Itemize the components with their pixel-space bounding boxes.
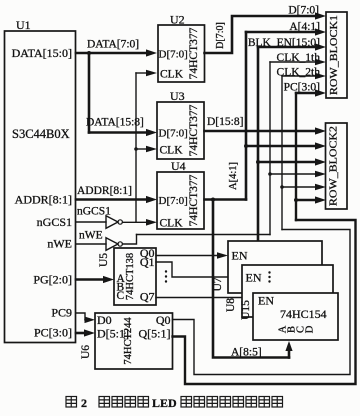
svg-text:U6: U6: [80, 345, 92, 359]
wire A[8:5] up into U15: [288, 346, 291, 358]
wire ADDR[8:1] bus from U1 to U4 D input: [76, 198, 147, 201]
arrow D[7:0] into ROW_BLOCK1: [315, 12, 326, 19]
junction CLK riser to U3 CLK: [134, 147, 138, 151]
arrow CLK_2th into ROW_BLOCK2: [315, 184, 326, 191]
wire CLK_1th into ROW_BLOCK1: [270, 61, 316, 63]
wire BLK_EN[15:0] into ROW_BLOCK1: [258, 46, 316, 49]
arrow into U15 EN: [242, 295, 253, 302]
arrow BLK_EN into ROW_BLOCK1: [315, 43, 326, 50]
wire BLK_EN into ROW_BLOCK2: [258, 161, 316, 164]
caption hanzi kou: [207, 397, 218, 408]
wire U4 output A bus to riser: [205, 198, 247, 201]
arrow D[15:8] into ROW_BLOCK2: [315, 127, 326, 134]
wire PC[3:0] riser: [295, 93, 297, 220]
inverter (nWE) triangle: [106, 238, 118, 251]
wire U5 Q0 to U7 EN: [156, 255, 218, 257]
svg-text:DATA[15:0]: DATA[15:0]: [12, 46, 72, 60]
svg-text:A[4:1]: A[4:1]: [228, 162, 239, 190]
svg-text:Q7: Q7: [140, 290, 155, 304]
block ROW_BLOCK2 box: [326, 123, 348, 209]
svg-text:U8: U8: [225, 298, 237, 312]
wire A[4:1] riser: [245, 32, 248, 200]
svg-text:Q1: Q1: [140, 255, 155, 269]
arrow CLK_1th into ROW_BLOCK2: [315, 171, 326, 178]
wire PG[2:0] bus from U1 to U5: [76, 278, 104, 281]
wire PC[3:0] into ROW_BLOCK1: [296, 92, 316, 94]
IC U2 74HCT377 latch box: [158, 25, 205, 82]
svg-text:nWE: nWE: [79, 230, 103, 242]
svg-text:A[8:5]: A[8:5]: [231, 347, 262, 359]
caption hanzi lu: [233, 397, 244, 408]
wire DATA[15:8] branch vertical: [88, 53, 91, 133]
svg-text:D: D: [305, 325, 316, 333]
block U8 enable-group box: [242, 265, 333, 317]
junction BLK_EN to ROW_BLOCK2: [256, 160, 260, 164]
ellipsis between U5 outputs: [165, 270, 167, 282]
wire nGCS1 from U1 to inverter: [76, 221, 106, 223]
svg-text:CLK: CLK: [160, 218, 184, 230]
svg-text:CLK_1th: CLK_1th: [277, 52, 321, 64]
svg-text:U4: U4: [171, 159, 186, 173]
wire nWE from U1 to inverter: [76, 243, 106, 245]
wire into U2 CLK: [136, 72, 147, 74]
junction A[8:5] branch on U4 output: [211, 198, 215, 202]
arrow into U2 CLK: [146, 70, 157, 77]
arrow PC[3:0] into ROW_BLOCK2: [315, 196, 326, 203]
inverter (nGCS1) bubble: [118, 220, 122, 224]
arrow into U3 CLK: [146, 146, 157, 153]
caption hanzi dian: [220, 397, 231, 408]
svg-text:74HCT244: 74HCT244: [123, 317, 134, 365]
arrow into U4 CLK: [146, 219, 157, 226]
svg-text:ADDR[8:1]: ADDR[8:1]: [77, 185, 132, 197]
svg-text:Q0: Q0: [156, 313, 171, 327]
caption hanzi ping: [181, 397, 192, 408]
svg-text:D[7:0]: D[7:0]: [159, 49, 188, 61]
ellipsis inside U8: [268, 271, 270, 282]
inverter (nWE) bubble: [118, 242, 122, 246]
svg-text:74HCT377: 74HCT377: [188, 27, 200, 79]
wire CLK_1th riser (from nWE inverter line): [269, 62, 271, 235]
svg-text:U7: U7: [212, 277, 224, 291]
arrow PC[3:0] into ROW_BLOCK1: [315, 89, 326, 96]
wire DATA[15:0] bus from U1 to U2 D input: [76, 52, 147, 55]
caption hanzi li: [259, 397, 270, 408]
svg-text:CLK: CLK: [160, 69, 184, 81]
junction A[4:1] to ROW_BLOCK2: [244, 144, 248, 148]
svg-text:PG[2:0]: PG[2:0]: [33, 273, 72, 287]
wire U2 output D[7:0] up to ROW_BLOCK1: [205, 16, 317, 53]
svg-text:EN: EN: [246, 271, 262, 285]
wire U5 Q1 step to U8 EN: [156, 262, 232, 277]
svg-text:DATA[7:0]: DATA[7:0]: [87, 39, 139, 51]
wire BLK_EN[15:0] riser from U7 top edge: [257, 47, 260, 241]
svg-text:D[7:0]: D[7:0]: [215, 22, 226, 49]
wire PC9 from U1 step down to U6 D0: [76, 313, 86, 320]
arrow into U6 D0: [85, 317, 96, 324]
arrow A[4:1] into ROW_BLOCK1: [315, 28, 326, 35]
svg-text:S3C44B0X: S3C44B0X: [12, 127, 70, 141]
wire U3 output D[15:8] to ROW_BLOCK2: [205, 130, 317, 133]
svg-text:U3: U3: [170, 89, 185, 103]
wire inverter output to U4 CLK: [122, 221, 147, 223]
svg-text:U1: U1: [16, 18, 31, 32]
svg-text:D[7:0]: D[7:0]: [159, 195, 188, 207]
arrow into U2 D[7:0]: [146, 49, 157, 56]
svg-text:D[7:0]: D[7:0]: [288, 5, 319, 17]
IC U5 74HCT138 decoder box: [114, 248, 156, 305]
wire PC[3:0] bus from U1 to U6: [76, 332, 85, 335]
block ROW_BLOCK1 box: [326, 12, 347, 98]
svg-text:BLK_EN[15:0]: BLK_EN[15:0]: [248, 37, 320, 49]
svg-text:ROW_BLOCK2: ROW_BLOCK2: [328, 126, 340, 206]
caption hanzi jie: [194, 397, 205, 408]
svg-text:D[7:0]: D[7:0]: [159, 128, 188, 140]
block U15 74HC154 decoder box: [253, 293, 338, 340]
arrow into U6 D[5:1]: [84, 329, 95, 336]
svg-text:Q[5:1]: Q[5:1]: [139, 327, 171, 341]
wire U6 Q[5:1] (PC[3:0]) long path right-down-right-up-left: [173, 220, 356, 384]
svg-text:D[5:1]: D[5:1]: [97, 327, 129, 341]
junction PC[3:0] to ROW_BLOCK2: [294, 198, 298, 202]
caption hanzi yuan: [246, 397, 257, 408]
svg-text:PC[3:0]: PC[3:0]: [34, 326, 72, 340]
wire CLK_2th into ROW_BLOCK1: [282, 75, 316, 77]
svg-text:EN: EN: [232, 249, 248, 263]
svg-text:nWE: nWE: [47, 237, 72, 251]
arrow BLK_EN into ROW_BLOCK2: [315, 158, 326, 165]
junction on DATA bus at branch to U3: [87, 51, 91, 55]
svg-text:LED: LED: [152, 396, 177, 410]
caption hanzi kong: [112, 397, 123, 408]
IC U3 74HCT377 latch box: [157, 102, 204, 159]
wire A[4:1] into ROW_BLOCK2: [246, 145, 316, 148]
junction CLK_2th to ROW_BLOCK2: [280, 185, 284, 189]
svg-text:C: C: [117, 290, 125, 302]
svg-text:74HC154: 74HC154: [280, 307, 327, 321]
wire A[4:1] into ROW_BLOCK1: [246, 31, 316, 34]
svg-text:74HCT377: 74HCT377: [188, 104, 200, 156]
IC U1 S3C44B0X main controller box: [5, 31, 76, 343]
arrow into U8 EN: [231, 274, 242, 281]
arrow into U3 D[7:0]: [146, 129, 157, 136]
wire into U3 CLK: [136, 148, 147, 150]
svg-text:CLK_2th: CLK_2th: [277, 67, 321, 79]
wire nWE inverter output step up: [122, 235, 136, 245]
arrow into U7 EN: [217, 252, 228, 259]
caption hanzi zhu: [99, 397, 110, 408]
caption hanzi tu2: [272, 397, 283, 408]
wire CLK_1th into ROW_BLOCK2: [270, 173, 316, 175]
svg-text:ROW_BLOCK1: ROW_BLOCK1: [328, 15, 340, 95]
arrow CLK_2th into ROW_BLOCK1: [315, 73, 326, 80]
svg-text:A[4:1]: A[4:1]: [289, 21, 320, 33]
block U7 enable-group box: [228, 241, 322, 293]
wire nWE inverted run to CLK_1th riser: [137, 234, 271, 236]
wire PC[3:0] into ROW_BLOCK2: [296, 199, 316, 201]
wire CLK riser to U2/U3 clocks: [135, 73, 137, 222]
wire CLK_2th into ROW_BLOCK2: [282, 186, 316, 188]
svg-text:D0: D0: [97, 313, 112, 327]
arrow into U5 select inputs: [103, 276, 114, 283]
caption hanzi tu: [66, 397, 77, 408]
IC U6 74HCT244 buffer box: [95, 313, 173, 369]
wire U6 Q0 (CLK_2th) long path right-down-right-up-left: [173, 230, 351, 375]
arrow A[8:5] up into U15 address inputs: [285, 341, 292, 351]
inverter (nGCS1) triangle: [106, 216, 118, 229]
svg-text:DATA[15:8]: DATA[15:8]: [86, 117, 144, 129]
svg-text:U5: U5: [98, 253, 110, 267]
svg-text:ADDR[8:1]: ADDR[8:1]: [15, 193, 72, 207]
svg-text:CLK: CLK: [160, 145, 184, 157]
figure caption: 图 2 主控板与 LED 屏接口电路原理图: [66, 397, 283, 408]
svg-text:U15: U15: [240, 300, 252, 320]
svg-text:PC[3:0]: PC[3:0]: [284, 82, 320, 94]
arrow CLK_1th into ROW_BLOCK1: [315, 59, 326, 66]
wire A[8:5] down from U4 output to decoder group: [213, 200, 289, 358]
svg-text:EN: EN: [258, 294, 274, 308]
svg-text:nGCS1: nGCS1: [37, 215, 72, 229]
caption hanzi yu: [138, 397, 149, 408]
arrow into U4 D[7:0]: [146, 196, 157, 203]
svg-text:74HCT377: 74HCT377: [188, 174, 200, 226]
IC U4 74HCT377 latch box: [157, 172, 204, 229]
svg-text:74HCT138: 74HCT138: [125, 253, 136, 300]
svg-text:D[15:8]: D[15:8]: [207, 116, 243, 128]
junction CLK_1th to ROW_BLOCK2: [268, 172, 272, 176]
arrow A[4:1] into ROW_BLOCK2: [315, 142, 326, 149]
svg-text:U2: U2: [170, 13, 185, 27]
svg-text:PC9: PC9: [51, 306, 72, 320]
wire CLK_2th riser: [281, 76, 283, 230]
wire U5 Q7 to U15 EN: [156, 297, 243, 299]
svg-text:2: 2: [81, 396, 87, 410]
caption hanzi ban: [125, 397, 136, 408]
wire DATA[15:8] horizontal into U3 D input: [89, 131, 146, 134]
